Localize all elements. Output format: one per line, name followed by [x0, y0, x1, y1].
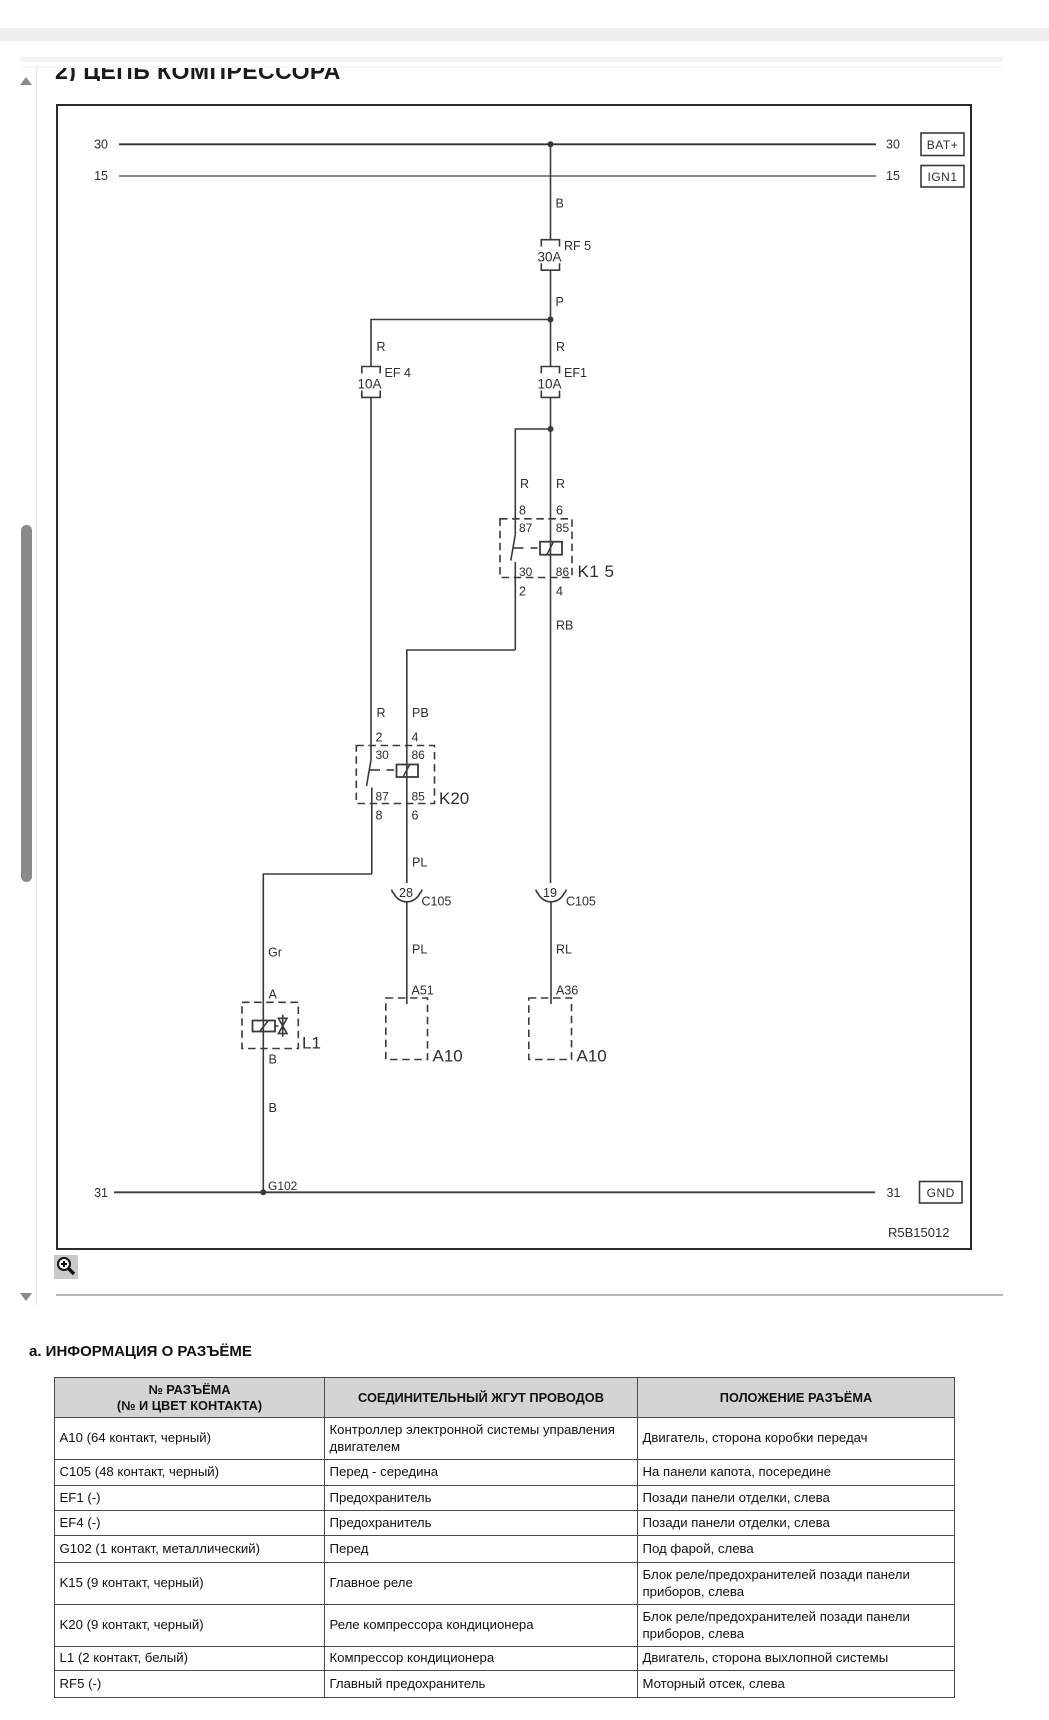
scrollbar track line: [36, 68, 37, 1305]
node junction below RF5: [548, 317, 554, 323]
wire C105-19 to A10 pin A36: [550, 902, 552, 1004]
svg-text:PB: PB: [412, 706, 429, 720]
svg-text:85: 85: [412, 790, 426, 804]
relay K20 switch blade: [367, 760, 372, 786]
magnifier icon: [54, 1255, 78, 1279]
svg-text:K20: K20: [439, 789, 469, 808]
fuse EF4 symbol: [362, 367, 380, 398]
terminal box BAT+: [921, 133, 964, 156]
svg-text:Gr: Gr: [268, 946, 282, 960]
compressor clutch L1 dashed box: [242, 1002, 298, 1048]
scrollbar thumb: [21, 525, 32, 882]
svg-text:87: 87: [519, 521, 533, 535]
svg-text:86: 86: [412, 748, 426, 762]
svg-text:R: R: [377, 340, 386, 354]
wire K20 pin 87 down to corner and left to L1: [263, 788, 372, 1193]
svg-text:2: 2: [519, 585, 526, 599]
terminal box IGN1: [921, 166, 964, 188]
svg-text:R: R: [520, 477, 529, 491]
svg-text:G102: G102: [268, 1179, 298, 1193]
relay K20 contact link: [369, 769, 395, 771]
svg-text:A36: A36: [556, 984, 578, 998]
svg-text:31: 31: [887, 1186, 901, 1200]
svg-text:R: R: [377, 706, 386, 720]
svg-text:BAT+: BAT+: [927, 138, 958, 152]
wire to EF4 branch: [371, 320, 551, 367]
wire K20 pin 4 through coil to pin 6 / PL: [406, 746, 408, 884]
wire K15 pin 30 to pin 2 down: [514, 562, 516, 650]
svg-text:4: 4: [556, 585, 563, 599]
svg-text:30: 30: [886, 138, 900, 152]
fuse RF5 symbol: [541, 240, 559, 271]
terminal box GND: [920, 1182, 963, 1204]
svg-text:R5B15012: R5B15012: [888, 1225, 949, 1240]
svg-text:30: 30: [519, 565, 533, 579]
svg-text:85: 85: [556, 521, 570, 535]
svg-text:19: 19: [543, 886, 557, 900]
svg-text:R: R: [556, 477, 565, 491]
svg-text:RF 5: RF 5: [564, 239, 591, 253]
fuse EF1 symbol: [541, 367, 559, 398]
wire EF4 down to K20 pin 2: [370, 397, 372, 760]
connector C105 pin 19 arc: [536, 890, 566, 902]
svg-text:6: 6: [556, 504, 563, 518]
L1 coil box: [253, 1021, 276, 1032]
svg-text:2: 2: [376, 731, 383, 745]
wire 30 bus: [119, 143, 876, 145]
wire C105-28 to A10 pin A51: [406, 902, 408, 1004]
svg-text:B: B: [269, 1101, 277, 1115]
scrollbar down arrow: [20, 1293, 32, 1301]
svg-text:IGN1: IGN1: [927, 170, 957, 184]
wire EF1 to node: [550, 397, 552, 429]
svg-text:31: 31: [94, 1186, 108, 1200]
wire 15 bus: [119, 175, 876, 177]
top gray band: [0, 28, 1049, 41]
svg-text:10A: 10A: [357, 377, 381, 392]
svg-text:RB: RB: [556, 619, 573, 633]
wire P from RF5 to junction: [550, 270, 552, 319]
svg-text:A10: A10: [433, 1047, 463, 1066]
wire junction to EF1: [550, 320, 552, 367]
relay K15 switch blade: [511, 535, 516, 561]
wire B from node to fuse RF5: [550, 144, 552, 239]
svg-text:15: 15: [886, 169, 900, 183]
svg-text:PL: PL: [412, 856, 427, 870]
svg-text:30A: 30A: [537, 250, 561, 265]
svg-text:PL: PL: [412, 943, 427, 957]
module A10 dashed box right: [529, 998, 572, 1060]
svg-text:8: 8: [519, 504, 526, 518]
svg-text:GND: GND: [927, 1186, 955, 1200]
relay K15 dashed box: [500, 519, 572, 578]
scrollbar up arrow: [20, 77, 32, 85]
svg-text:C105: C105: [422, 895, 452, 909]
svg-text:8: 8: [376, 809, 383, 823]
section heading: [29, 1343, 252, 1360]
module A10 dashed box left: [386, 998, 428, 1060]
node junction G102: [260, 1189, 266, 1195]
L1 valve symbol: [275, 1015, 287, 1037]
relay K20 dashed box: [356, 746, 434, 804]
svg-text:RL: RL: [556, 943, 572, 957]
svg-text:86: 86: [556, 565, 570, 579]
connector info table: [54, 1377, 955, 1698]
svg-text:L1: L1: [302, 1034, 321, 1053]
svg-text:28: 28: [399, 886, 413, 900]
svg-text:15: 15: [94, 169, 108, 183]
svg-text:EF1: EF1: [564, 366, 587, 380]
wire K15 pin2 to K20 pin4: [407, 650, 516, 746]
scroll area faint second band: [20, 66, 1003, 68]
wire node to K15 pin 6 (through coil): [550, 429, 552, 883]
svg-text:R: R: [556, 340, 565, 354]
svg-text:10A: 10A: [537, 377, 561, 392]
relay K15 coil box: [540, 542, 562, 555]
svg-text:EF 4: EF 4: [385, 366, 411, 380]
relay K20 coil box: [397, 765, 419, 778]
svg-text:C105: C105: [566, 895, 596, 909]
wire 31 ground bus: [114, 1191, 875, 1193]
node junction on wire 30: [548, 141, 554, 147]
svg-text:A: A: [269, 988, 278, 1002]
svg-text:B: B: [556, 197, 564, 211]
svg-text:B: B: [269, 1053, 277, 1067]
svg-text:4: 4: [412, 731, 419, 745]
svg-text:K1 5: K1 5: [578, 562, 615, 581]
clipped page title: [55, 68, 555, 81]
svg-text:6: 6: [412, 809, 419, 823]
node junction below EF1: [548, 426, 554, 432]
separator line: [56, 1294, 1003, 1296]
svg-text:P: P: [556, 295, 564, 309]
connector C105 pin 28 arc: [392, 890, 422, 902]
svg-text:30: 30: [376, 748, 390, 762]
diagram outer box: [56, 104, 972, 1250]
svg-text:87: 87: [376, 790, 390, 804]
svg-text:30: 30: [94, 138, 108, 152]
svg-text:A51: A51: [412, 984, 434, 998]
scroll area top light band: [20, 57, 1003, 62]
wire node to K15 pin 8: [515, 429, 550, 535]
relay K15 contact link: [513, 547, 538, 549]
svg-text:A10: A10: [577, 1047, 607, 1066]
